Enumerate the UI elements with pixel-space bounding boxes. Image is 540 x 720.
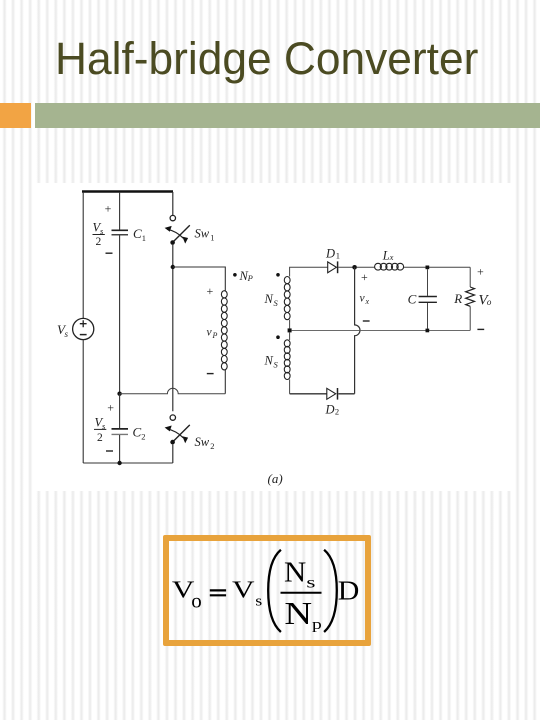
node primary-top junction xyxy=(171,265,175,269)
svg-text:s: s xyxy=(255,592,262,609)
wire left rail upper xyxy=(82,192,84,318)
svg-text:D: D xyxy=(325,246,335,260)
label Vo xyxy=(477,265,492,330)
wire D2 to right riser xyxy=(338,393,354,395)
svg-text:x: x xyxy=(389,252,394,262)
resistor R xyxy=(453,267,474,330)
svg-text:p: p xyxy=(312,616,322,632)
formula right parenthesis xyxy=(324,550,337,632)
svg-text:D: D xyxy=(325,402,335,416)
svg-text:+: + xyxy=(361,270,368,284)
svg-text:S: S xyxy=(274,298,279,308)
svg-text:V: V xyxy=(232,577,255,604)
diode D2 xyxy=(325,388,340,416)
svg-text:x: x xyxy=(365,297,370,306)
switch Sw2 xyxy=(165,415,215,463)
svg-text:P: P xyxy=(247,273,253,283)
formula Vo = Vs xyxy=(172,577,262,613)
wire bottom bus xyxy=(83,462,173,464)
svg-text:D: D xyxy=(338,576,360,607)
source Vs xyxy=(57,318,94,339)
switch Sw1 xyxy=(165,192,215,245)
svg-text:1: 1 xyxy=(336,250,340,260)
svg-text:2: 2 xyxy=(210,441,214,451)
svg-text:Sw: Sw xyxy=(195,226,210,240)
capacitor C1 xyxy=(93,202,147,254)
svg-text:N: N xyxy=(264,354,274,368)
node bottom junction xyxy=(117,461,121,465)
svg-text:(a): (a) xyxy=(268,471,283,486)
capacitor C output xyxy=(408,266,437,333)
svg-text:R: R xyxy=(453,291,462,306)
svg-text:C: C xyxy=(408,291,417,306)
formula fraction Ns over Np xyxy=(281,558,323,633)
svg-text:P: P xyxy=(212,331,218,340)
svg-text:2: 2 xyxy=(141,431,145,441)
wire output bottom rail xyxy=(292,329,471,331)
inductor Lx xyxy=(357,249,470,271)
svg-text:Sw: Sw xyxy=(195,435,210,449)
node vx junction xyxy=(352,265,357,270)
wire secondary bottom xyxy=(290,393,327,395)
formula D xyxy=(338,576,360,607)
svg-text:s: s xyxy=(306,574,315,591)
diode D1 xyxy=(325,246,340,273)
svg-text:S: S xyxy=(274,359,279,369)
label vx xyxy=(360,270,370,321)
wire secondary top xyxy=(290,267,328,276)
svg-text:2: 2 xyxy=(335,406,339,416)
wire C-branch middle xyxy=(119,235,121,393)
svg-text:2: 2 xyxy=(97,432,103,444)
wire left rail lower xyxy=(82,340,84,463)
transformer secondary winding NS lower xyxy=(264,332,291,393)
wire right riser with hop xyxy=(355,267,360,394)
svg-text:N: N xyxy=(284,558,306,588)
svg-text:L: L xyxy=(382,249,390,263)
wire primary top xyxy=(173,267,226,291)
transformer primary winding vP xyxy=(207,284,228,394)
node midpoint junction xyxy=(117,392,121,396)
svg-text:+: + xyxy=(207,284,214,298)
svg-text:+: + xyxy=(477,265,484,279)
svg-text:2: 2 xyxy=(96,236,102,248)
capacitor C2 xyxy=(94,394,146,463)
node NP polarity dot xyxy=(233,269,253,283)
wire middle line with hop xyxy=(120,388,226,393)
svg-text:o: o xyxy=(191,589,202,613)
node center tap xyxy=(288,320,292,333)
label (a) xyxy=(268,471,283,486)
svg-text:C: C xyxy=(133,226,142,241)
svg-text:C: C xyxy=(133,425,142,440)
wire C-branch top xyxy=(119,192,121,230)
wire switch branch vertical xyxy=(172,245,174,412)
svg-text:N: N xyxy=(284,596,312,631)
svg-text:1: 1 xyxy=(210,232,214,242)
wire D1 to vx node xyxy=(338,266,354,268)
svg-text:+: + xyxy=(107,400,114,414)
svg-text:o: o xyxy=(487,297,492,307)
transformer secondary winding NS upper xyxy=(264,273,291,320)
svg-text:+: + xyxy=(105,202,112,216)
svg-text:N: N xyxy=(264,292,274,306)
svg-text:s: s xyxy=(65,329,69,339)
formula left parenthesis xyxy=(268,550,281,632)
svg-text:1: 1 xyxy=(142,233,146,243)
wire top bus xyxy=(82,190,173,193)
